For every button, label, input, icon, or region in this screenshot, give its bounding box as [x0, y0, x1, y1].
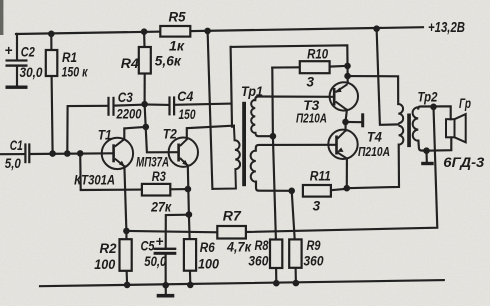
wire T4 emitter column [346, 160, 348, 188]
wire top supply rail [16, 27, 423, 34]
capacitor C1 input wire [0, 153, 24, 155]
wire collector link vertical x231 [231, 47, 232, 127]
resistor R4 leads [143, 32, 146, 47]
junction ground rail/R2 [124, 282, 131, 289]
junction Tr1 bottom/R11/R9 [288, 188, 295, 195]
chassis plate at T3/T4 midpoint [361, 113, 364, 127]
junction ground rail/R8 [273, 280, 280, 287]
scan smudge top-left [0, 0, 3, 35]
Tr2 secondary bottom wire [418, 141, 426, 151]
wire T1 collector to node B [124, 127, 146, 139]
transistor T2 [169, 138, 198, 167]
resistor R1 [46, 50, 58, 76]
junction T3/T4 midpoint [342, 119, 349, 126]
junction rail/R4 [141, 28, 148, 35]
transformer Tr2 primary winding upper [398, 104, 403, 145]
wire C4 right to collector link [175, 104, 232, 105]
capacitor C2 plates [6, 59, 28, 61]
wire C1 to T1 base [30, 152, 112, 155]
wire R7 feedback line [126, 231, 217, 232]
capacitor C5 plates [154, 248, 177, 250]
junction Tr2 secondary top/feedback [430, 104, 437, 111]
wire +13.2V riser to Tr2 primary tap [377, 29, 399, 125]
capacitor C3 plates [107, 97, 109, 116]
capacitor C4 plates [168, 96, 170, 115]
ground stub center [165, 285, 167, 294]
junction rail/Tr2 tap riser [373, 25, 380, 32]
junction T2 emitter/C5/R6 [186, 211, 193, 218]
wire node A to C4 left [145, 103, 169, 106]
junction base line/R3 [77, 150, 84, 157]
wire T3-T4 collector link [346, 110, 347, 131]
wire midpoint stub to chassis plate [346, 121, 361, 123]
transformer Tr1 secondary upper winding [251, 100, 255, 133]
junction rail/R1 [48, 31, 55, 38]
transistor T1 [102, 138, 133, 169]
junction Tr1 tap/R10/R8 [270, 133, 277, 140]
wire bottom ground rail [40, 280, 444, 286]
wire C5 stub [166, 215, 189, 248]
resistor R5 [160, 26, 190, 37]
transformer Tr1 secondary lower winding [251, 151, 256, 182]
Tr1 secondary upper-bottom tap to node I [255, 133, 273, 136]
wire C3 branch vertical [67, 106, 107, 154]
Tr1 secondary bottom lead to node J [256, 182, 292, 191]
junction rail/R5 output [204, 28, 211, 35]
node A junction R4/C3/C4 [141, 101, 148, 108]
wire riser from R5 node down to Tr1 primary bottom [208, 31, 213, 189]
wire node K to Tr2 primary bottom [347, 145, 399, 189]
wire C5 bottom lead [165, 255, 167, 285]
wire R3 right to T2 emitter [170, 188, 188, 190]
ground symbol bottom center [157, 294, 175, 298]
junction T3 emitter/Tr2 top [344, 73, 351, 80]
resistor R11 [303, 185, 331, 197]
transformer Tr1 core [242, 102, 246, 186]
wire T1 emitter column [124, 166, 126, 241]
wire R2 bottom [126, 273, 129, 285]
junction T2 emitter/R3 [185, 186, 192, 193]
Tr1 secondary top lead to T3 base [255, 97, 333, 101]
wire node across top y46 to T3 emitter column [231, 45, 348, 83]
resistor R1 leads [50, 34, 52, 50]
wire T2 collector riser [187, 126, 234, 140]
junction base line/R1 [49, 150, 56, 157]
resistor R2 [120, 239, 132, 271]
wire R6 bottom [189, 272, 191, 285]
resistor R8 [270, 240, 282, 269]
junction ground rail/R9 [293, 280, 300, 287]
ground stub right [425, 151, 427, 162]
junction base line/C3 [64, 150, 71, 157]
ground bar under Tr2 [421, 162, 434, 165]
capacitor C2 leads [16, 34, 18, 60]
wire R8 bottom [275, 268, 277, 283]
speaker Gr [446, 114, 466, 142]
junction T4 emitter/R11/Tr2 bottom [344, 185, 351, 192]
wire R9 bottom [295, 268, 297, 283]
capacitor C2 bottom bar [6, 86, 28, 89]
transistor T4 [328, 130, 357, 159]
junction T1 emitter/R2/R7 [123, 228, 130, 235]
wire node A to node B to T2 base [145, 104, 178, 152]
wire T3 emitter to G [348, 76, 399, 104]
resistor R7 [217, 226, 246, 239]
wire R9 riser [292, 191, 295, 240]
wire R10 left riser [272, 68, 276, 240]
wire R3 branch [80, 153, 142, 190]
transformer Tr2 core [407, 114, 411, 148]
Tr2 secondary top wire to speaker [418, 106, 451, 119]
Tr1 secondary lower-top to T4 base [256, 145, 335, 151]
transistor T3 [330, 82, 358, 110]
wire R11 right to node K [331, 189, 347, 190]
wire T2 emitter column [188, 166, 190, 241]
resistor R4 [139, 47, 151, 74]
resistor R6 [184, 239, 196, 271]
wire R10 row [272, 66, 300, 68]
junction ground rail/R6 [187, 282, 194, 289]
node B junction T1 collector/T2 base [143, 124, 150, 131]
transformer Tr2 secondary winding [413, 107, 419, 141]
resistor R9 [289, 239, 301, 267]
wire C3 right to node A [115, 105, 145, 106]
junction Tr2 secondary bottom/ground [423, 147, 430, 154]
capacitor C1 plates [24, 143, 26, 163]
resistor R10 [300, 61, 330, 73]
resistor R3 [142, 184, 170, 196]
junction ground rail/C5 [162, 282, 169, 289]
junction R10/T2 collector net [344, 63, 351, 70]
transformer Tr1 primary winding [212, 126, 240, 189]
